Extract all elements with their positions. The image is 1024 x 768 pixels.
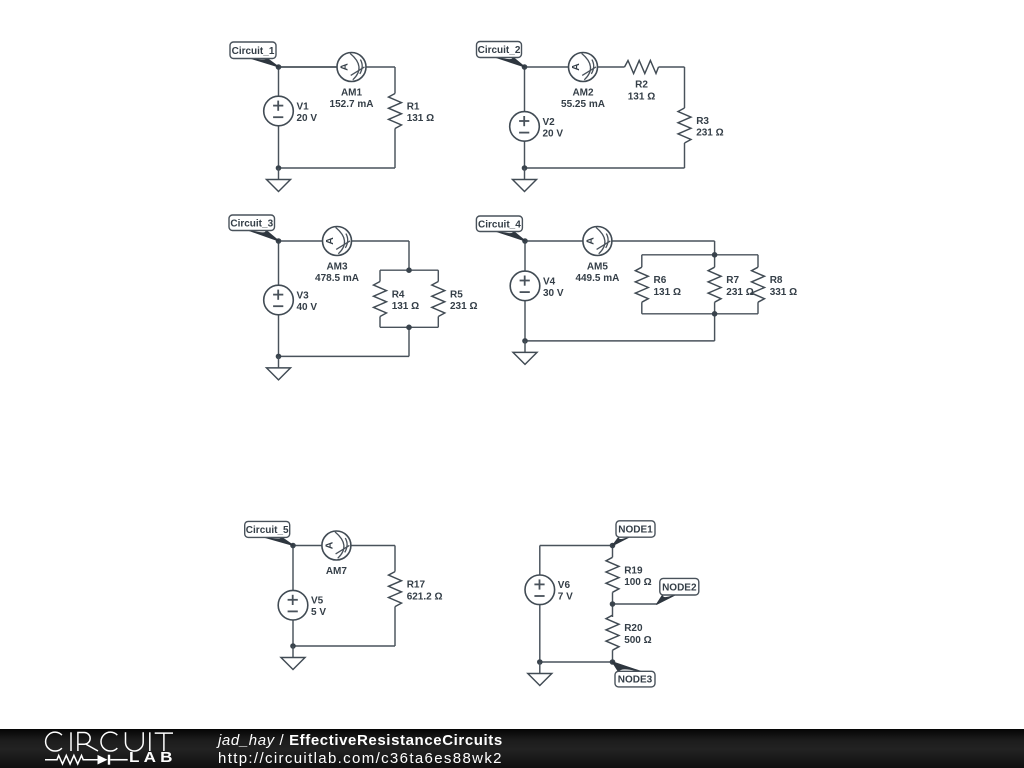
svg-text:478.5 mA: 478.5 mA bbox=[315, 273, 359, 284]
svg-text:R6: R6 bbox=[654, 275, 667, 286]
svg-text:131 Ω: 131 Ω bbox=[628, 91, 655, 102]
svg-text:V1: V1 bbox=[297, 101, 310, 112]
svg-text:Circuit_1: Circuit_1 bbox=[232, 46, 275, 57]
svg-text:231 Ω: 231 Ω bbox=[450, 301, 477, 312]
svg-text:231 Ω: 231 Ω bbox=[696, 128, 723, 139]
svg-text:55.25 mA: 55.25 mA bbox=[561, 99, 605, 110]
svg-text:AM3: AM3 bbox=[326, 262, 348, 273]
svg-text:AM7: AM7 bbox=[326, 566, 348, 577]
svg-text:20 V: 20 V bbox=[297, 113, 318, 124]
svg-text:A: A bbox=[584, 237, 596, 245]
svg-text:A: A bbox=[570, 63, 582, 71]
svg-text:Circuit_3: Circuit_3 bbox=[230, 218, 273, 229]
svg-text:5 V: 5 V bbox=[311, 607, 326, 618]
svg-text:V5: V5 bbox=[311, 596, 324, 607]
svg-text:231 Ω: 231 Ω bbox=[726, 287, 753, 298]
svg-text:40 V: 40 V bbox=[297, 302, 318, 313]
svg-text:AM1: AM1 bbox=[341, 88, 363, 99]
svg-text:V6: V6 bbox=[558, 580, 571, 591]
svg-text:NODE1: NODE1 bbox=[618, 525, 653, 536]
svg-text:A: A bbox=[339, 63, 351, 71]
svg-text:V3: V3 bbox=[297, 290, 310, 301]
svg-text:152.7 mA: 152.7 mA bbox=[330, 99, 374, 110]
svg-text:R1: R1 bbox=[407, 102, 420, 113]
svg-text:AM5: AM5 bbox=[587, 262, 609, 273]
svg-text:30 V: 30 V bbox=[543, 288, 564, 299]
svg-text:NODE3: NODE3 bbox=[618, 675, 653, 686]
svg-text:131 Ω: 131 Ω bbox=[654, 287, 681, 298]
svg-text:R7: R7 bbox=[726, 275, 739, 286]
svg-text:100 Ω: 100 Ω bbox=[624, 577, 651, 588]
svg-text:R20: R20 bbox=[624, 623, 643, 634]
svg-text:20 V: 20 V bbox=[543, 128, 564, 139]
svg-text:449.5 mA: 449.5 mA bbox=[575, 273, 619, 284]
svg-text:131 Ω: 131 Ω bbox=[392, 301, 419, 312]
svg-text:R3: R3 bbox=[696, 116, 709, 127]
svg-text:7 V: 7 V bbox=[558, 592, 573, 603]
svg-text:R5: R5 bbox=[450, 290, 463, 301]
svg-text:331 Ω: 331 Ω bbox=[770, 287, 797, 298]
svg-text:NODE2: NODE2 bbox=[662, 582, 697, 593]
svg-text:R8: R8 bbox=[770, 275, 783, 286]
svg-text:R19: R19 bbox=[624, 565, 643, 576]
svg-text:AM2: AM2 bbox=[572, 88, 594, 99]
svg-text:R2: R2 bbox=[635, 80, 648, 91]
svg-text:621.2 Ω: 621.2 Ω bbox=[407, 591, 443, 602]
svg-text:V2: V2 bbox=[543, 117, 556, 128]
svg-text:A: A bbox=[323, 541, 335, 549]
svg-text:Circuit_2: Circuit_2 bbox=[478, 45, 521, 56]
svg-text:A: A bbox=[324, 237, 336, 245]
svg-text:Circuit_5: Circuit_5 bbox=[246, 525, 289, 536]
svg-text:131 Ω: 131 Ω bbox=[407, 113, 434, 124]
svg-text:V4: V4 bbox=[543, 276, 556, 287]
svg-text:500 Ω: 500 Ω bbox=[624, 635, 651, 646]
svg-text:R17: R17 bbox=[407, 580, 426, 591]
svg-text:R4: R4 bbox=[392, 290, 405, 301]
svg-text:Circuit_4: Circuit_4 bbox=[478, 219, 521, 230]
